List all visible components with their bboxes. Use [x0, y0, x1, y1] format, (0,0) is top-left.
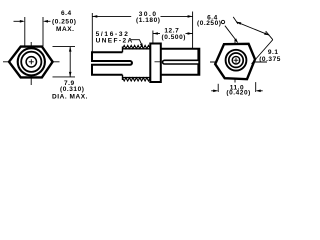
svg-text:UNEF-2A: UNEF-2A	[96, 37, 134, 44]
svg-text:(1.180): (1.180)	[136, 17, 160, 24]
svg-text:(0.375: (0.375	[259, 56, 281, 63]
svg-text:DIA. MAX.: DIA. MAX.	[52, 94, 88, 101]
svg-text:(0.250): (0.250)	[197, 20, 221, 27]
svg-text:(0.420): (0.420)	[226, 90, 250, 97]
svg-text:MAX.: MAX.	[56, 26, 74, 33]
svg-text:6.4: 6.4	[61, 10, 72, 17]
svg-text:(0.250): (0.250)	[52, 19, 76, 26]
svg-text:(0.500): (0.500)	[162, 34, 186, 41]
svg-text:(0.310): (0.310)	[60, 86, 84, 93]
svg-text:9.1: 9.1	[268, 49, 279, 56]
